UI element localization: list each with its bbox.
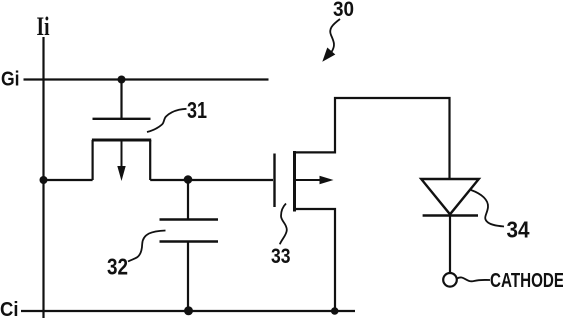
channel bar of transistor 31 <box>92 139 151 142</box>
transistor Q33 <box>275 151 334 212</box>
current-direction arrow of transistor 33 <box>296 179 322 181</box>
leader squiggle for label 31 <box>147 109 187 132</box>
diode cathode bar <box>423 214 478 217</box>
capacitor bottom plate <box>160 240 219 243</box>
gate bar of transistor 33 <box>273 154 275 208</box>
junction dot on Gi at gate lead <box>118 76 126 84</box>
channel bar of transistor 33 <box>293 151 296 212</box>
wire capacitor top lead <box>187 180 189 219</box>
svg-text:CATHODE: CATHODE <box>490 270 563 292</box>
leader squiggle for label 32 <box>128 231 166 262</box>
wire source of transistor 33 down to Ci <box>295 209 335 311</box>
junction dot on Ii at node row <box>40 176 48 184</box>
junction dot on Ci at capacitor <box>184 306 193 315</box>
wire node row line from Ii to transistor 31 left leg <box>44 179 93 181</box>
leader squiggle for label 34 <box>471 190 504 227</box>
svg-text:34: 34 <box>507 217 530 243</box>
wire diode cathode lead down to terminal circle <box>449 216 451 273</box>
svg-text:Gi: Gi <box>1 69 20 91</box>
svg-text:Ii: Ii <box>37 12 50 41</box>
right source/drain leg of transistor 31 <box>149 140 151 180</box>
svg-text:30: 30 <box>333 0 354 21</box>
wire node row line from transistor 31 right leg to gate of transistor 33 <box>150 179 273 181</box>
capacitor C32 <box>160 220 219 242</box>
cathode terminal circle <box>443 273 457 287</box>
svg-text:33: 33 <box>271 244 291 268</box>
wire Ii vertical line <box>42 37 44 318</box>
transistor Q31 <box>92 119 151 181</box>
svg-text:Ci: Ci <box>0 298 19 319</box>
leader squiggle for label 33 <box>280 204 287 245</box>
diode triangle <box>421 179 479 214</box>
reference arrow for label 30 <box>330 19 340 52</box>
current-direction arrow of transistor 31 <box>121 141 123 170</box>
junction dot at node row and capacitor <box>184 175 193 184</box>
left source/drain leg of transistor 31 <box>91 140 93 180</box>
svg-text:32: 32 <box>107 254 128 280</box>
svg-text:31: 31 <box>187 97 207 123</box>
wire Gi horizontal line <box>24 78 269 80</box>
capacitor top plate <box>160 218 219 221</box>
gate bar of transistor 31 <box>93 118 151 120</box>
wire Ci horizontal line <box>21 310 355 312</box>
wire gate lead of transistor 31 <box>120 80 122 119</box>
junction dot on Ci at transistor 33 source <box>331 307 339 315</box>
wire drain of transistor 33 up and over to diode <box>295 98 450 179</box>
leader squiggle for CATHODE <box>457 277 490 281</box>
wire capacitor bottom lead <box>187 242 189 311</box>
diode D34 (OLED) <box>421 179 479 216</box>
